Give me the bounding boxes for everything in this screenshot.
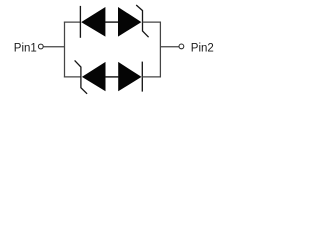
svg-text:Pin1: Pin1 [14, 43, 37, 55]
diode D4 cathode bar [141, 62, 143, 92]
diode D1 cathode bar [79, 6, 81, 38]
wire bottom branch left segment [64, 76, 81, 78]
wire top branch right segment [142, 21, 161, 23]
zener D3 cathode bar with bends [75, 60, 88, 93]
diode D4 triangle [118, 62, 141, 91]
diode D3 triangle [82, 62, 106, 91]
terminal circle Pin1 [38, 44, 43, 49]
terminal circle Pin2 [179, 44, 184, 49]
diode D1 triangle [81, 7, 105, 37]
wire bottom branch right segment [142, 76, 161, 78]
wire left bus vertical [64, 22, 66, 78]
wire top branch left segment [64, 21, 80, 23]
diode D2 triangle [118, 7, 141, 37]
wire bottom branch middle segment [105, 76, 118, 78]
wire right bus to Pin2 circle [160, 46, 179, 48]
wire top branch middle segment [105, 21, 118, 23]
wire right bus vertical [159, 22, 161, 78]
wire Pin1 circle to left bus [44, 46, 65, 48]
svg-text:Pin2: Pin2 [191, 43, 214, 55]
zener D2 cathode bar with bends [136, 5, 148, 37]
